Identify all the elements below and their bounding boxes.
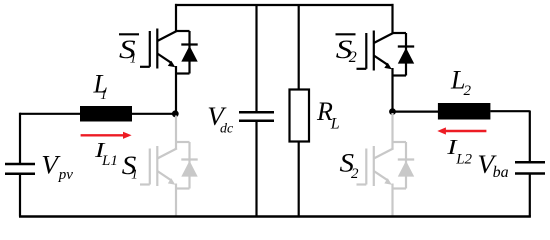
wire left vertical upper [19,113,21,164]
wire S2 emitter to bottom rail (gray) [391,184,393,217]
label I_L1 [94,139,118,169]
capacitor C_dc [239,112,274,121]
wire C_dc branch top [255,5,257,112]
svg-text:1: 1 [131,167,138,182]
wire node B to L2 [393,110,439,112]
svg-text:ba: ba [493,164,509,181]
svg-text:L1: L1 [101,153,118,169]
wire bottom rail [19,215,531,218]
svg-text:2: 2 [349,49,357,66]
wire L1 to node A [132,113,175,115]
wire S1 emitter to bottom rail (gray) [175,184,177,217]
label V_dc [207,101,234,136]
diode D2 (antiparallel with S̄2) [393,33,415,76]
transistor S2 (IGBT, inactive gray) [357,113,394,186]
diode D3 (antiparallel with S1, gray) [176,142,198,189]
wire left vertical lower [19,174,21,217]
label V_pv [41,150,73,183]
label S2 [340,148,360,182]
diode D4 (antiparallel with S2, gray) [393,142,415,189]
node A junction dot [172,110,179,117]
transistor S1 (IGBT, inactive gray) [140,116,177,187]
label R_L [316,97,340,133]
current arrow I_L1 (red, rightward) [81,132,132,139]
label L2 [450,66,472,100]
svg-text:1: 1 [100,87,107,102]
label V_ba [477,149,508,180]
svg-text:pv: pv [58,167,74,183]
wire left leg collector stub [175,4,177,32]
inductor L1 [80,106,132,122]
wire top rail [175,4,394,6]
wire S̄2 emitter to node B [391,68,393,112]
node B junction dot [389,108,396,115]
wire L2 to right corner [490,110,529,112]
inductor L2 [438,103,491,120]
transistor S̄2 (IGBT) [357,31,394,71]
label L1 [93,69,108,102]
label S1 [122,150,138,181]
label S̄1 [119,34,139,65]
wire R_L branch bottom [298,142,300,217]
wire right vertical lower [529,174,531,217]
wire S̄1 emitter to node A [175,66,177,114]
diode D1 (antiparallel with S̄1) [176,31,198,74]
label S̄2 [336,34,357,66]
svg-text:1: 1 [130,51,137,66]
label I_L2 [446,136,472,167]
svg-text:2: 2 [351,166,359,182]
svg-text:L: L [330,115,340,132]
svg-text:L2: L2 [455,151,472,167]
wire left source to L1 [20,113,80,115]
capacitor C_pv (source V_pv) [5,164,35,174]
capacitor C_ba (source V_ba) [515,162,545,173]
current arrow I_L2 (red, leftward) [437,127,486,134]
wire right leg collector stub [391,4,393,34]
wire right vertical upper [529,111,531,163]
svg-text:dc: dc [220,121,234,136]
resistor R_L [290,90,310,142]
wire C_dc branch bottom [255,121,257,217]
transistor S̄1 (IGBT) [140,29,177,69]
svg-text:2: 2 [464,83,472,99]
wire R_L branch top [298,5,300,90]
